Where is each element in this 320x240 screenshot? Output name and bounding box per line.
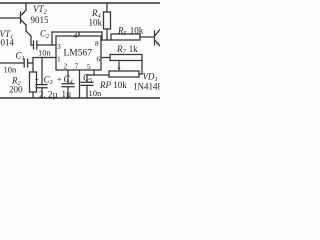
svg-text:3: 3 (57, 42, 61, 51)
svg-text:4: 4 (74, 31, 78, 40)
transistor VT3 base bar (154, 31, 156, 45)
transistor VT3 collector diagonal (155, 30, 160, 36)
wire C1 left lead from edge (0, 62, 24, 64)
svg-text:5: 5 (87, 62, 91, 71)
wire over IC top (52, 31, 102, 33)
wire bottom ground rail (0, 97, 160, 99)
svg-text:2: 2 (64, 62, 68, 71)
svg-text:R7 1k: R7 1k (116, 44, 138, 56)
svg-text:+: + (35, 75, 40, 84)
wire C2 to pin 3 (37, 44, 56, 46)
wire pin 8 to R4/R5 node (101, 39, 111, 41)
wire down right of IC (101, 32, 103, 40)
wire node down through C1 tee to R2 (32, 58, 34, 73)
wire C1 to node (28, 62, 33, 64)
wire into C2 left plate (31, 44, 33, 46)
svg-text:10n: 10n (4, 65, 18, 75)
capacitor C4 plates (62, 84, 74, 87)
arrowhead RP wiper (118, 68, 121, 71)
svg-text:RP 10k: RP 10k (99, 80, 127, 90)
svg-text:8: 8 (95, 39, 99, 48)
wire jog diagonal (26, 31, 31, 36)
wire R4 bottom lead (106, 29, 108, 40)
wire R2 bottom lead (32, 92, 34, 98)
svg-text:1µ: 1µ (62, 89, 72, 99)
resistor R7 body (110, 55, 142, 61)
wire pin 4 tick (78, 32, 80, 36)
svg-text:+: + (57, 75, 62, 84)
transistor VT3 emitter diagonal (155, 41, 160, 46)
wire pin 5 down (93, 70, 95, 75)
resistor R4 body (104, 12, 111, 29)
wire R7 right end down to RP right end (141, 61, 143, 75)
transistor VT2 base bar (20, 12, 22, 23)
capacitor C1 plates (24, 59, 27, 67)
wire RP wiper stem (118, 62, 120, 68)
transistor VT2 collector diagonal (21, 20, 26, 25)
svg-text:9015: 9015 (31, 15, 50, 25)
svg-text:7: 7 (75, 62, 79, 71)
wire pin3 node up (51, 32, 53, 45)
wire C5 bottom lead (86, 85, 88, 98)
resistor R5 body (111, 34, 140, 40)
potentiometer RP body (109, 71, 139, 77)
wire pin 1 to left node (33, 57, 56, 59)
transistor Q VT2 emitter diagonal (22, 10, 26, 15)
wire R4 top lead (106, 3, 108, 12)
svg-text:1N4148: 1N4148 (133, 82, 160, 92)
svg-text:6: 6 (97, 55, 101, 64)
svg-text:1: 1 (57, 55, 61, 64)
svg-text:2. 2µ: 2. 2µ (39, 90, 58, 100)
arrowhead VT2 emitter (PNP) (21, 12, 24, 15)
wire pin5 node to RP left (87, 74, 109, 76)
wire pin 7 to ground (79, 70, 81, 98)
wire down to C2 level (30, 36, 32, 45)
wire VT2 collector down (25, 25, 27, 31)
wire pin 6 to R7 (101, 57, 110, 59)
wire VT2 base lead from left edge (0, 17, 20, 19)
svg-text:LM567: LM567 (64, 49, 93, 59)
resistor R2 body (30, 72, 37, 92)
wire RP right stub (139, 73, 142, 75)
svg-text:10n: 10n (38, 48, 52, 58)
wire pin 2 down (67, 70, 69, 84)
svg-text:10k: 10k (89, 18, 103, 28)
capacitor C3 plates (36, 85, 47, 88)
wire C4 bottom lead (67, 87, 69, 98)
svg-text:9014: 9014 (0, 38, 15, 48)
wire C3 bottom lead (41, 88, 43, 98)
IC U1 LM567 box (56, 36, 101, 70)
arrowhead VT3 emitter (NPN) (156, 42, 159, 45)
wire top supply rail (0, 2, 160, 4)
wire C5 top lead (86, 75, 88, 82)
capacitor C2 plates (34, 41, 37, 49)
wire VT2 emitter lead from top rail (25, 3, 27, 10)
capacitor C5 plates (81, 82, 93, 85)
svg-text:R5 10k: R5 10k (117, 26, 144, 38)
svg-text:200: 200 (9, 85, 23, 95)
wire R5 to VT3 base (140, 36, 154, 38)
wire C3 branch down (41, 58, 43, 85)
